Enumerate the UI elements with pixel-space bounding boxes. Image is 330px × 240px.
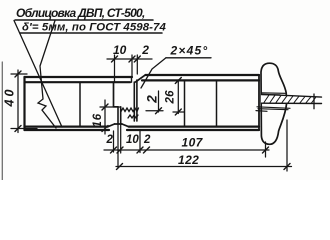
dim 26 ticks <box>175 78 181 116</box>
dim 16 ticks <box>102 104 108 132</box>
svg-text:Облицовка ДВП, СТ-500,: Облицовка ДВП, СТ-500, <box>16 6 145 20</box>
note underline 1 <box>15 19 153 21</box>
dim 10 ext right <box>131 55 133 77</box>
dim 16 line <box>104 100 106 134</box>
svg-text:16: 16 <box>92 113 104 127</box>
glue zigzag row 1 <box>121 108 139 112</box>
svg-text:122: 122 <box>178 153 199 167</box>
left part step <box>114 106 119 108</box>
left part bottom chamfer <box>108 124 115 127</box>
chamfer label underline <box>166 57 211 59</box>
svg-text:107: 107 <box>182 136 204 150</box>
right part bottom chamfer <box>122 124 129 127</box>
right part interior vertical 1 <box>184 80 186 126</box>
leader line A to bottom facing <box>14 21 62 128</box>
dim line bottom 2-10-2-107 <box>104 149 269 151</box>
svg-text:10: 10 <box>126 134 139 146</box>
leader line B with break <box>38 21 56 129</box>
left part top facing <box>25 77 133 82</box>
left part interior vertical <box>79 82 81 126</box>
dim 16 ext top <box>100 106 121 108</box>
right part interior vertical 2 <box>216 80 218 126</box>
chamfer leader <box>141 58 166 88</box>
right part top chamfer <box>136 75 146 82</box>
dim 122 line <box>116 166 292 168</box>
dim 26 vertical <box>177 80 179 114</box>
svg-text:40: 40 <box>3 87 17 108</box>
left part tongue-side vertical <box>118 107 121 124</box>
svg-text:2×45°: 2×45° <box>170 44 209 58</box>
screw head hatch bottom <box>256 107 290 112</box>
svg-text:2: 2 <box>106 134 114 146</box>
screw tip tick <box>313 94 315 109</box>
right part edge verticals <box>134 80 137 121</box>
bottom joint ext lines <box>114 124 141 168</box>
dim 2 mid tick <box>156 108 162 114</box>
page edge streak <box>1 62 3 180</box>
right part right edge <box>258 75 260 130</box>
left part inner edge at joint <box>113 82 115 107</box>
dim ticks top <box>112 56 141 62</box>
dim 10 ext left <box>114 55 116 82</box>
ext 122 right <box>286 120 288 171</box>
svg-text:δ′= 5мм, по ГОСТ 4598-74: δ′= 5мм, по ГОСТ 4598-74 <box>22 22 166 34</box>
bottom dim ticks <box>111 147 269 153</box>
screw rod outline <box>261 94 322 103</box>
right part tongue bottom <box>115 123 123 125</box>
svg-text:26: 26 <box>165 90 177 105</box>
dim 40 ext bottom <box>11 128 37 130</box>
edge moulding oval <box>261 63 287 144</box>
dim 10-2 line top <box>107 58 152 60</box>
screw rod blank <box>261 95 321 103</box>
dim 40 ticks <box>15 71 21 132</box>
svg-text:2: 2 <box>143 134 151 146</box>
dim 40 line <box>17 70 19 133</box>
dim 2 mid vertical <box>158 91 160 112</box>
left part lip end <box>131 77 133 82</box>
screw rod hatch <box>264 95 316 103</box>
dim 122 ticks <box>117 164 291 170</box>
dim 26 ext bottom <box>173 111 184 113</box>
svg-text:10: 10 <box>113 43 127 57</box>
dim 40 ext top <box>11 73 27 75</box>
left part bottom facing <box>25 127 110 130</box>
glue zigzag row 2 <box>128 115 138 118</box>
svg-text:2: 2 <box>145 95 160 104</box>
dim 2 ext right <box>136 55 138 74</box>
note underline 2 <box>20 32 162 34</box>
left part left edge <box>23 77 25 130</box>
right part top facing <box>142 75 259 80</box>
screw head hatch top <box>261 93 285 95</box>
svg-text:2: 2 <box>141 43 149 57</box>
dim 2 mid ext <box>146 110 163 112</box>
ext 107 right <box>265 142 267 157</box>
right part bottom facing <box>127 127 259 130</box>
